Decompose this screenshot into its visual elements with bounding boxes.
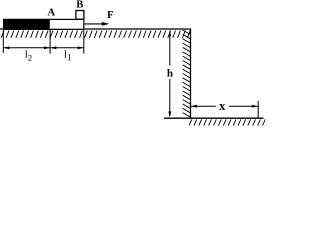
svg-text:x: x [219,99,226,113]
x extension line right [257,101,259,119]
plank A outline [4,19,84,29]
svg-text:A: A [48,8,56,19]
dimension l1 line [50,46,84,49]
table hatching [1,31,190,38]
svg-text:B: B [76,0,83,11]
extension line left (l2) [2,30,4,53]
plank A black section [3,19,50,30]
extension line middle [49,30,51,54]
svg-text:F: F [107,10,113,21]
table surface line [0,28,191,30]
extension line right (plank edge extended) [83,30,85,54]
block B [76,11,84,20]
ground line [164,117,264,119]
h dimension line lower segment with down arrow [168,79,171,118]
svg-text:l2: l2 [25,49,32,63]
h dimension line upper segment with up arrow [168,30,171,66]
dimension l2 line [3,46,50,49]
svg-text:h: h [167,67,173,79]
ground hatching [189,119,265,125]
wall hatching [183,30,191,117]
x dimension right segment with right arrow [229,105,258,108]
svg-text:l1: l1 [64,49,72,63]
force F arrow [84,22,109,26]
x dimension left segment with left arrow [191,105,216,108]
cliff wall line [190,29,192,119]
